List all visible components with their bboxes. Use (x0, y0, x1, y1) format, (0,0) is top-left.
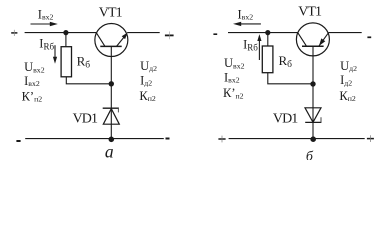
arrow IRb (points up) (257, 34, 261, 60)
wire: node A' to transistor collector (268, 32, 298, 34)
terminal - (top-right output) (367, 36, 371, 38)
junction dot on rail (310, 136, 316, 142)
resistor Rb (61, 47, 71, 77)
zener diode VD1 triangle (anode, pointing up) (103, 109, 119, 125)
transistor VT1 collector lead (298, 33, 307, 47)
node A' (junction dot) (265, 30, 270, 35)
svg-text:VD1: VD1 (273, 111, 298, 126)
wire: emitter to output (127, 32, 160, 34)
wire: node A to transistor collector (66, 32, 96, 34)
junction dot on rail (109, 137, 115, 143)
terminal - (bottom-left) (16, 140, 20, 142)
terminal + (bottom-left) (218, 136, 225, 143)
resistor Rb (262, 46, 273, 73)
transistor VT1 base lead (vertical down) (110, 46, 112, 138)
transistor VT1 emitter lead with arrow into base (319, 33, 329, 47)
wire: resistor bottom L-shape to node B (66, 77, 111, 84)
svg-text:а: а (105, 141, 114, 160)
bottom rail (229, 138, 365, 140)
node A (junction dot) (63, 30, 68, 35)
arrow IRb (points down) (53, 45, 57, 64)
zener diode VD1 triangle (pointing down) (305, 108, 321, 123)
transistor VT1 (PNP) circle (296, 23, 329, 56)
svg-text:VT1: VT1 (298, 4, 322, 19)
transistor VT1 (NPN) circle (95, 24, 128, 57)
node B (junction dot) (109, 81, 114, 86)
terminal + (top-right output) (165, 32, 174, 40)
wire: resistor bottom L-shape to node B' (268, 73, 313, 84)
wire: input+ to node A (25, 32, 66, 34)
wire: emitter to output (329, 32, 362, 34)
node B' (junction dot) (310, 81, 315, 86)
arrow Ivx2 (points left) (233, 22, 261, 26)
transistor VT1 base lead (vertical down) (312, 46, 314, 138)
bottom rail (25, 138, 164, 140)
terminal - (bottom-right) (166, 138, 170, 140)
svg-text:VT1: VT1 (99, 6, 123, 21)
svg-text:б: б (306, 149, 314, 160)
zener diode VD1 cathode bar with tick (103, 108, 119, 112)
wire: node A' down to resistor (267, 33, 269, 46)
terminal + (bottom-right) (367, 135, 374, 142)
zener diode VD1 cathode bar with tick (305, 117, 321, 122)
terminal + (top-left input) (11, 30, 17, 36)
transistor VT1 collector lead (96, 33, 105, 47)
transistor VT1 emitter lead with arrow (117, 37, 125, 46)
wire: node A down to resistor (65, 33, 67, 47)
transistor VT1 base bar (302, 45, 324, 47)
arrow Ivx2 (points right) (31, 22, 58, 26)
transistor VT1 base bar (100, 45, 121, 47)
terminal - (top-left input) (213, 33, 217, 35)
svg-text:VD1: VD1 (73, 112, 98, 127)
wire: input- to node A' (228, 32, 268, 34)
